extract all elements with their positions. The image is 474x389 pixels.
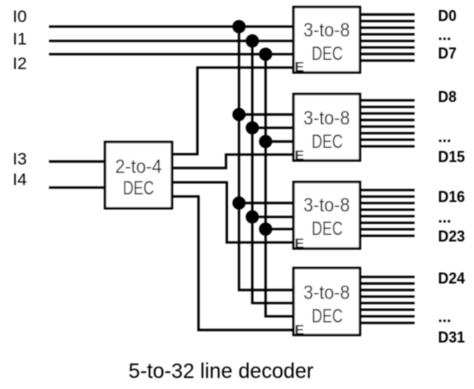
junction dot I2 to U2 [259, 48, 272, 61]
svg-text:D31: D31 [438, 329, 465, 346]
wire output D12 [360, 125, 415, 127]
wire output D22 [360, 228, 415, 230]
wire output D7 [360, 59, 415, 61]
junction dot I2 to U3 [259, 135, 272, 148]
wire I1 branch to U4 [252, 216, 293, 218]
junction dot I0 to U4 [232, 196, 245, 209]
wire enable E1 from U1 to U3 [172, 155, 294, 168]
wire output D14 [360, 138, 415, 140]
wire output D8 [360, 99, 415, 101]
wire output D3 [360, 33, 415, 35]
wire output D20 [360, 215, 415, 217]
decoder U1 2-to-4 [105, 142, 172, 208]
wire output D4 [360, 40, 415, 42]
wire output D23 [360, 235, 415, 237]
wire I2 branch to U4 [266, 228, 294, 230]
wire I4 [49, 186, 105, 188]
wire I1 horizontal [49, 40, 294, 42]
svg-text:I4: I4 [13, 170, 27, 189]
wire I0 branch to U4 [239, 202, 294, 204]
svg-text:DEC: DEC [312, 44, 343, 65]
svg-text:3-to-8: 3-to-8 [303, 21, 350, 42]
svg-text:2-to-4: 2-to-4 [115, 157, 162, 178]
svg-text:D8: D8 [438, 89, 457, 106]
decoder U5 3-to-8 [294, 268, 361, 337]
junction dot I2 to U4 [259, 223, 272, 236]
wire enable E0 from U1 to U2 [172, 68, 294, 155]
wire enable E3 from U1 to U5 [172, 196, 294, 330]
wire output D0 [360, 13, 415, 15]
junction dot I1 to U3 [246, 121, 259, 134]
decoder U2 3-to-8 [294, 7, 361, 75]
svg-text:D16: D16 [438, 189, 465, 206]
wire I2 horizontal [49, 53, 294, 55]
wire I0 branch to U3 [239, 113, 294, 115]
wire output D11 [360, 119, 415, 121]
svg-text:I0: I0 [13, 7, 27, 26]
wire output D24 [360, 276, 415, 278]
wire output D9 [360, 106, 415, 108]
svg-text:D0: D0 [438, 8, 457, 25]
wire I1 branch to U3 [252, 127, 293, 129]
svg-text:...: ... [438, 210, 451, 227]
wire I1 vertical bus to U5 [252, 41, 293, 303]
junction dot I0 to U2 [232, 20, 245, 33]
svg-text:E: E [295, 321, 304, 337]
svg-text:E: E [295, 235, 304, 251]
svg-text:3-to-8: 3-to-8 [303, 196, 350, 217]
wire output D30 [360, 315, 415, 317]
svg-text:D24: D24 [438, 270, 465, 287]
svg-text:E: E [295, 147, 304, 163]
wire output D31 [360, 322, 415, 324]
wire output D10 [360, 112, 415, 114]
wire I0 vertical bus to U5 [239, 27, 294, 290]
svg-text:E: E [295, 59, 304, 75]
wire output D1 [360, 20, 415, 22]
wire output D26 [360, 289, 415, 291]
junction dot I1 to U2 [246, 34, 259, 47]
wire output D29 [360, 309, 415, 311]
svg-text:DEC: DEC [312, 307, 343, 328]
wire output D28 [360, 302, 415, 304]
wire output D18 [360, 202, 415, 204]
svg-text:...: ... [438, 129, 451, 146]
wire I2 vertical bus to U5 [266, 54, 294, 316]
wire enable E2 from U1 to U4 [172, 182, 294, 242]
wire output D25 [360, 282, 415, 284]
junction dot I1 to U4 [246, 210, 259, 223]
wire output D2 [360, 27, 415, 29]
svg-text:DEC: DEC [312, 219, 343, 240]
wire output D6 [360, 53, 415, 55]
svg-text:D23: D23 [438, 228, 465, 245]
decoder U3 3-to-8 [294, 94, 361, 163]
svg-text:3-to-8: 3-to-8 [303, 283, 350, 304]
svg-text:I1: I1 [13, 29, 27, 48]
svg-text:I3: I3 [13, 150, 27, 169]
svg-text:...: ... [438, 27, 451, 44]
svg-text:DEC: DEC [123, 179, 154, 200]
wire output D17 [360, 195, 415, 197]
svg-text:DEC: DEC [312, 132, 343, 153]
svg-text:...: ... [438, 309, 451, 326]
wire output D16 [360, 189, 415, 191]
wire I0 horizontal [49, 25, 294, 27]
wire output D21 [360, 222, 415, 224]
wire output D5 [360, 46, 415, 48]
wire I3 [49, 160, 105, 162]
svg-text:D15: D15 [438, 149, 465, 166]
wire output D19 [360, 208, 415, 210]
wire output D13 [360, 132, 415, 134]
wire output D15 [360, 145, 415, 147]
svg-text:3-to-8: 3-to-8 [303, 108, 350, 129]
svg-text:5-to-32 line decoder: 5-to-32 line decoder [129, 360, 314, 383]
svg-text:I2: I2 [13, 54, 27, 73]
wire I2 branch to U3 [266, 140, 294, 142]
wire output D27 [360, 295, 415, 297]
decoder U4 3-to-8 [294, 182, 361, 251]
svg-text:D7: D7 [438, 45, 457, 62]
junction dot I0 to U3 [232, 108, 245, 121]
